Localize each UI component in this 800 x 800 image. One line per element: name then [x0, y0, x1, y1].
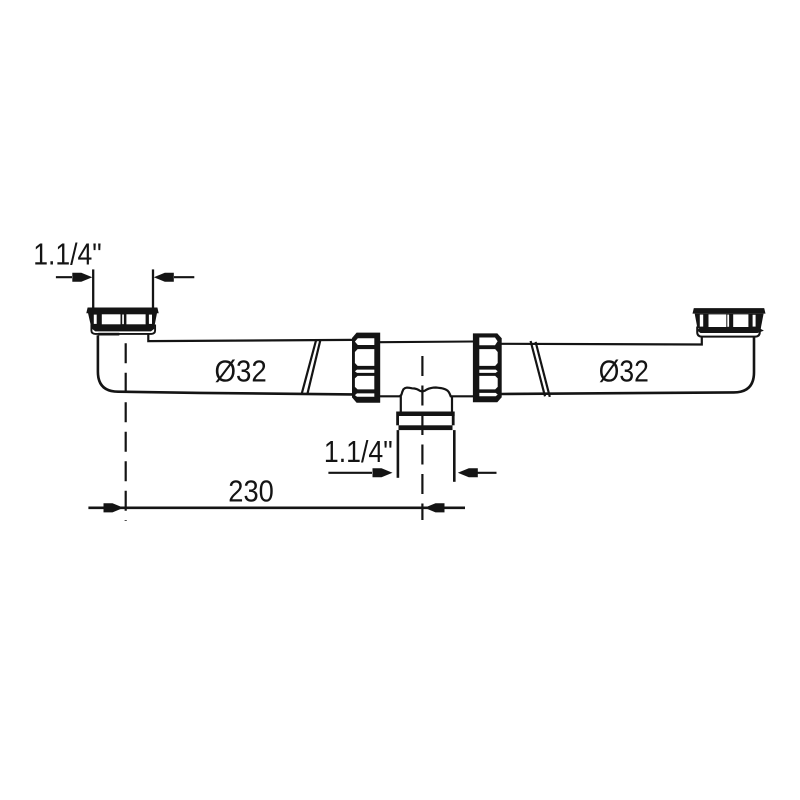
right pipe top edge and riser to fitting — [501, 337, 702, 345]
left strainer nut bottom rim — [91, 324, 155, 331]
middle centerline (dashed) — [421, 356, 423, 520]
svg-text:Ø32: Ø32 — [599, 355, 649, 389]
right strainer nut window slits — [700, 314, 756, 327]
middle dim right tail line — [478, 472, 497, 474]
branch tailpipe left wall — [397, 430, 400, 478]
right pipe break mark 1 — [531, 341, 545, 396]
top-left dim right tail line — [174, 276, 194, 278]
left centerline (dashed) — [125, 343, 127, 521]
branch collar left wall — [396, 416, 399, 425]
top-left dim left tail line — [56, 276, 72, 278]
svg-text:1.1/4": 1.1/4" — [324, 435, 393, 469]
right compression nut thread slots — [479, 338, 497, 397]
left strainer nut lip thick segment — [98, 333, 119, 336]
branch collar bottom band — [399, 425, 453, 430]
left compression nut thread slots — [355, 338, 374, 397]
230 dim left arrow — [104, 503, 124, 512]
branch collar right wall — [452, 416, 455, 425]
branch outlet right wall — [451, 396, 453, 413]
branch collar top band — [396, 412, 455, 417]
dimension extension line right (top-left dim) — [152, 269, 154, 308]
right strainer nut bottom rim — [697, 327, 764, 333]
left tailpiece outer wall, elbow curve and pipe bottom edge — [98, 335, 352, 394]
left tailpiece inner wall and pipe top edge — [148, 334, 352, 341]
left pipe break mark 1 — [302, 340, 317, 394]
right compression nut body — [473, 333, 502, 402]
middle dim left arrow — [373, 468, 393, 477]
left pipe break mark 2 — [307, 340, 320, 395]
230 dim right arrow — [425, 503, 445, 512]
left strainer nut flange — [86, 308, 158, 314]
tee body bottom edge with freehand break — [379, 388, 473, 397]
tee body top edge — [379, 340, 473, 343]
left strainer nut body — [88, 313, 157, 328]
svg-text:1.1/4": 1.1/4" — [33, 237, 102, 271]
top-left dim left arrow — [72, 273, 92, 282]
left strainer nut window slits — [94, 314, 152, 324]
svg-text:Ø32: Ø32 — [215, 355, 267, 389]
right pipe bottom edge, elbow curve and outer wall — [501, 337, 754, 394]
branch outlet left wall — [400, 396, 402, 413]
right strainer nut body — [695, 314, 764, 329]
right strainer nut bottom lip — [697, 327, 760, 337]
left strainer nut bottom lip — [91, 325, 155, 334]
svg-text:230: 230 — [228, 475, 273, 509]
dimension line 230 — [88, 506, 465, 509]
left compression nut body — [352, 333, 380, 403]
middle dim left tail line — [328, 472, 372, 474]
branch tailpipe right wall — [453, 430, 456, 482]
right pipe break mark 2 — [536, 342, 550, 397]
right strainer nut flange — [693, 308, 766, 314]
middle dim right arrow — [458, 468, 478, 477]
top-left dim right arrow — [154, 273, 174, 282]
dimension extension line left (top-left dim) — [92, 269, 94, 307]
